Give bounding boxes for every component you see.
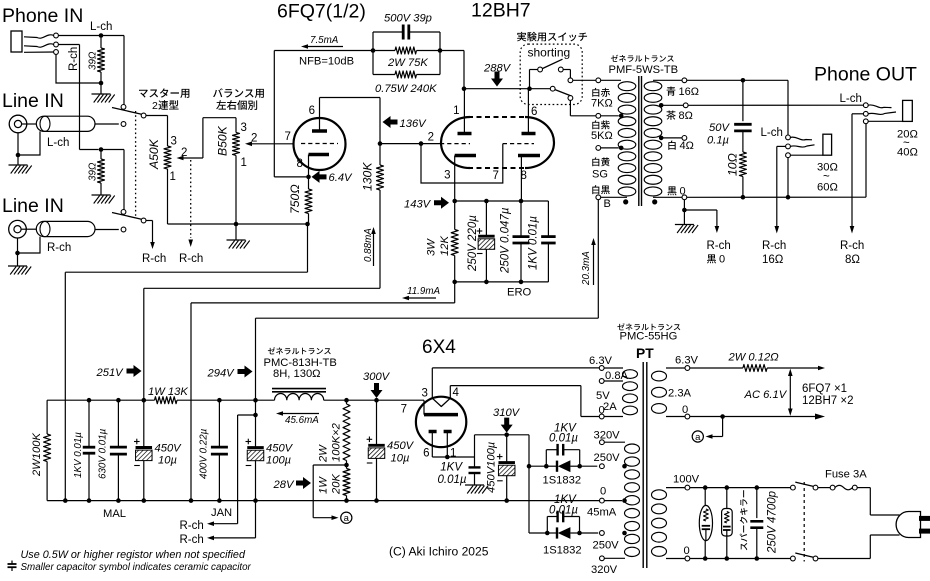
svg-text:AC 6.1V: AC 6.1V bbox=[744, 389, 788, 401]
cable L-ch bbox=[36, 116, 95, 131]
6FQ7 cathode bbox=[309, 153, 330, 157]
svg-text:300V: 300V bbox=[363, 371, 391, 383]
shorting switch upper bbox=[529, 70, 531, 89]
label master pot bbox=[139, 88, 189, 98]
wire 0 to ground and R-ch bbox=[683, 200, 685, 225]
OPT core bbox=[638, 76, 640, 206]
svg-text:2W 0.12Ω: 2W 0.12Ω bbox=[728, 352, 780, 364]
svg-text:R-ch: R-ch bbox=[142, 253, 166, 265]
svg-text:60Ω: 60Ω bbox=[817, 182, 838, 194]
cathode network bottom rail bbox=[455, 281, 549, 283]
resistor 39ohm L input bbox=[100, 38, 102, 48]
svg-text:2: 2 bbox=[428, 132, 434, 144]
choke PMC-813H-TB bbox=[272, 388, 326, 390]
svg-text:Phone IN: Phone IN bbox=[2, 5, 83, 27]
svg-text:Phone OUT: Phone OUT bbox=[814, 64, 917, 86]
jack1 sleeve contact bbox=[863, 119, 868, 124]
jack2 tip contact bbox=[786, 135, 791, 140]
svg-text:10µ: 10µ bbox=[391, 453, 410, 465]
spark killer 2 bbox=[726, 488, 728, 509]
svg-text:6: 6 bbox=[423, 448, 429, 460]
wire phone sleeve to ground bbox=[56, 54, 101, 83]
junction heater bias divider bbox=[344, 463, 349, 468]
junction NFB right bbox=[438, 48, 443, 53]
jack1 ring contact bbox=[863, 111, 868, 116]
rail 310V bbox=[475, 434, 530, 436]
selector switch L arm bbox=[112, 108, 142, 115]
label choke bbox=[268, 347, 331, 354]
svg-text:Line IN: Line IN bbox=[2, 90, 64, 112]
svg-text:0.01µ: 0.01µ bbox=[549, 505, 578, 517]
mains bottom wire bbox=[690, 558, 791, 560]
wire to ground symbol bbox=[235, 224, 237, 240]
svg-text:4Ω: 4Ω bbox=[680, 140, 694, 152]
phone-in jack ring contact bbox=[24, 44, 54, 47]
svg-text:0.8A: 0.8A bbox=[605, 370, 629, 382]
plate supply rail 288V bbox=[464, 88, 550, 90]
wire jack2 ring to R-ch 16 bbox=[777, 145, 786, 147]
diode 1S1832 upper bbox=[529, 465, 546, 467]
svg-text:3W: 3W bbox=[426, 238, 438, 256]
svg-text:16Ω: 16Ω bbox=[762, 254, 784, 266]
voltage arrow 136V bbox=[383, 116, 398, 128]
svg-text:50V: 50V bbox=[709, 122, 730, 134]
svg-text:Line IN: Line IN bbox=[2, 195, 64, 217]
jack2 ring contact bbox=[786, 144, 791, 149]
wire grid tie bbox=[380, 143, 440, 145]
svg-text:A50K: A50K bbox=[147, 138, 161, 170]
svg-text:3: 3 bbox=[422, 388, 428, 400]
arrow to R-ch preamp bbox=[152, 221, 154, 243]
svg-text:1W: 1W bbox=[318, 476, 330, 494]
junction choke out bbox=[344, 398, 349, 403]
wire 251V supply row2 bbox=[144, 287, 380, 289]
svg-text:143V: 143V bbox=[404, 199, 432, 211]
junction cathode resistor bottom bbox=[305, 222, 310, 227]
OPT primary winding bbox=[618, 82, 636, 91]
svg-text:250V 220µ: 250V 220µ bbox=[467, 215, 479, 272]
svg-text:8: 8 bbox=[521, 170, 527, 182]
junction 39ohm bottom bbox=[99, 81, 104, 86]
node a second (circled) bbox=[692, 431, 703, 442]
svg-text:450V: 450V bbox=[266, 443, 294, 455]
12BH7 plate a (pin1) bbox=[458, 132, 472, 136]
svg-text:12BH7: 12BH7 bbox=[471, 0, 531, 22]
jack1 20-40ohm body bbox=[903, 100, 913, 121]
wire NFB to cathode bbox=[273, 51, 275, 177]
wire cable L to selector bbox=[95, 123, 119, 125]
svg-text:Use 0.5W or higher registor wh: Use 0.5W or higher registor when not spe… bbox=[21, 549, 246, 561]
svg-text:1W 13K: 1W 13K bbox=[148, 386, 188, 398]
svg-text:3: 3 bbox=[241, 122, 247, 134]
svg-text:1S1832: 1S1832 bbox=[543, 475, 582, 487]
svg-text:450V100µ: 450V100µ bbox=[486, 442, 498, 493]
B+ rail top bbox=[47, 399, 154, 401]
heater return wire bbox=[690, 416, 815, 418]
voltage arrow 300V bbox=[374, 398, 379, 403]
svg-text:MAL: MAL bbox=[103, 508, 126, 520]
label R-ch (phone in) bbox=[68, 47, 80, 71]
mains switch lower bbox=[791, 556, 796, 561]
svg-text:6.4V: 6.4V bbox=[329, 172, 354, 184]
svg-text:2: 2 bbox=[152, 100, 158, 112]
wire selector R out bbox=[146, 220, 153, 222]
rca jack R bbox=[9, 220, 27, 238]
phone-in jack tip contact bbox=[24, 35, 54, 38]
svg-text:7: 7 bbox=[493, 170, 499, 182]
svg-text:7: 7 bbox=[401, 404, 407, 416]
current arrow 11.9mA bbox=[409, 297, 436, 299]
wire rca L to cable bbox=[22, 123, 37, 125]
PT 6.3V 2.3A winding bbox=[652, 371, 667, 381]
svg-text:6: 6 bbox=[309, 105, 315, 117]
svg-text:R-ch: R-ch bbox=[47, 242, 71, 254]
wire cathode to ground bus bbox=[307, 224, 309, 272]
wire cable R to selector bbox=[95, 229, 119, 231]
svg-text:6: 6 bbox=[531, 106, 537, 118]
ground rail bottom bbox=[47, 500, 599, 502]
svg-text:45.6mA: 45.6mA bbox=[285, 415, 319, 426]
svg-text:8H, 130Ω: 8H, 130Ω bbox=[273, 368, 321, 380]
svg-text:R-ch: R-ch bbox=[762, 240, 786, 252]
ground bus of input stage bbox=[168, 223, 308, 225]
ground (39ohm R) bbox=[92, 194, 111, 196]
selector switch R contacts bbox=[121, 210, 126, 215]
svg-text:6FQ7(1/2): 6FQ7(1/2) bbox=[277, 1, 366, 23]
svg-text:400V 0.22µ: 400V 0.22µ bbox=[199, 428, 210, 479]
resistor 0.75W 240K bbox=[373, 74, 395, 76]
current arrow 20.3mA bbox=[593, 245, 595, 285]
svg-text:shorting: shorting bbox=[528, 46, 571, 60]
svg-text:1: 1 bbox=[241, 157, 247, 169]
capacitor 1KV 0.01u snubber lower bbox=[546, 517, 548, 534]
label secondary taps bbox=[667, 87, 676, 96]
svg-text:R-ch: R-ch bbox=[68, 47, 80, 71]
svg-text:8: 8 bbox=[297, 158, 303, 170]
svg-text:7KΩ: 7KΩ bbox=[591, 98, 613, 110]
wire NFB bus bbox=[274, 50, 373, 52]
junction pot B bottom bbox=[234, 222, 239, 227]
wire selector L to volume pot bbox=[146, 115, 168, 117]
svg-text:100K×2: 100K×2 bbox=[331, 422, 343, 462]
svg-text:39Ω: 39Ω bbox=[88, 51, 99, 70]
svg-text:0: 0 bbox=[682, 404, 688, 416]
svg-text:SG: SG bbox=[592, 169, 608, 181]
ground (line-in L) bbox=[9, 164, 28, 166]
AC plug bbox=[869, 488, 871, 515]
wire pot A wiper to pot B top bbox=[202, 118, 204, 158]
phone-in jack sleeve contact bbox=[24, 51, 54, 53]
svg-text:20.3mA: 20.3mA bbox=[581, 251, 592, 286]
6FQ7 plate bbox=[312, 129, 327, 133]
label PT maker bbox=[617, 323, 680, 330]
svg-text:2W 75K: 2W 75K bbox=[387, 57, 428, 69]
junction node L input bbox=[99, 33, 104, 38]
6X4 heater bbox=[432, 398, 450, 406]
OPT secondary terminals bbox=[653, 79, 682, 81]
voltage arrow 6.4V at cathode bbox=[306, 175, 311, 180]
svg-text:Smaller capacitor symbol indic: Smaller capacitor symbol indicates ceram… bbox=[21, 562, 252, 573]
potentiometer B50K (balance) bbox=[233, 133, 240, 156]
wire plates joined bbox=[432, 456, 474, 458]
shorting switch lower bbox=[550, 86, 555, 91]
label primary taps bbox=[592, 88, 610, 97]
svg-text:1KV 0.01µ: 1KV 0.01µ bbox=[528, 216, 540, 270]
spark killer 1 bbox=[704, 488, 706, 506]
svg-text:PT: PT bbox=[636, 346, 654, 361]
node a (circled) bbox=[341, 512, 352, 523]
svg-text:28V: 28V bbox=[273, 479, 295, 491]
12BH7 cathode b (pin8) bbox=[518, 154, 540, 158]
tube 6X4 envelope bbox=[416, 397, 466, 447]
wire phone tip to L resistor node bbox=[58, 35, 101, 37]
wire to diodes bbox=[528, 435, 530, 533]
tube 12BH7 envelope bbox=[441, 117, 470, 168]
svg-text:39Ω: 39Ω bbox=[88, 162, 99, 181]
fuse 3A bbox=[818, 487, 830, 489]
svg-text:320V: 320V bbox=[591, 564, 618, 576]
svg-text:0: 0 bbox=[680, 186, 686, 198]
capacitor 400V 0.22u bbox=[217, 398, 222, 403]
jack1 tip contact bbox=[863, 103, 868, 108]
svg-text:6X4: 6X4 bbox=[422, 337, 456, 358]
resistor 2W100K bleeder bbox=[46, 400, 48, 434]
svg-text:2.3A: 2.3A bbox=[668, 388, 692, 400]
current arrow 7.5mA bbox=[308, 46, 343, 48]
wire to node a bbox=[722, 417, 724, 437]
wire jack1 ring to R-ch 8 bbox=[852, 113, 863, 115]
capacitor 1KV 0.01u snubber upper bbox=[545, 450, 547, 467]
svg-text:0.88mA: 0.88mA bbox=[363, 228, 374, 262]
svg-text:310V: 310V bbox=[493, 407, 521, 419]
12BH7 grid b (pin7) bbox=[503, 143, 534, 145]
secondary 0 rail bbox=[687, 196, 866, 198]
svg-text:20K: 20K bbox=[331, 474, 343, 495]
wire OPT B to 294V node bbox=[597, 200, 599, 319]
rca R ground wire bbox=[17, 238, 19, 266]
tube 6FQ7 envelope bbox=[294, 118, 346, 170]
mains top wire bbox=[690, 487, 791, 489]
rca L ground wire bbox=[17, 133, 19, 165]
svg-text:251V: 251V bbox=[96, 367, 125, 379]
R-ch B+ tap wire bbox=[253, 413, 258, 418]
svg-text:PMC-55HG: PMC-55HG bbox=[620, 331, 678, 343]
svg-text:B: B bbox=[604, 198, 611, 210]
svg-text:630V 0.01µ: 630V 0.01µ bbox=[98, 428, 109, 479]
svg-text:16Ω: 16Ω bbox=[679, 86, 699, 98]
svg-text:250V: 250V bbox=[593, 540, 620, 552]
svg-text:JAN: JAN bbox=[211, 507, 232, 519]
svg-text:250V 4700p: 250V 4700p bbox=[767, 490, 779, 554]
svg-text:(C) Aki Ichiro 2025: (C) Aki Ichiro 2025 bbox=[389, 545, 489, 559]
PT 100V winding bbox=[652, 490, 667, 500]
svg-text:0: 0 bbox=[599, 405, 605, 417]
svg-text:7: 7 bbox=[285, 131, 291, 143]
svg-text:0.01µ: 0.01µ bbox=[549, 433, 578, 445]
svg-text:L-ch: L-ch bbox=[90, 21, 112, 33]
capacitor 1KV 0.01u rect snub to ground bbox=[474, 457, 476, 467]
ground (phone-in L) bbox=[92, 93, 111, 95]
svg-text:a: a bbox=[344, 513, 350, 524]
capacitor 50V 0.1u zobel bbox=[742, 80, 744, 121]
svg-text:7.5mA: 7.5mA bbox=[310, 35, 339, 46]
svg-text:2W100K: 2W100K bbox=[31, 433, 43, 477]
svg-text:10µ: 10µ bbox=[158, 455, 177, 467]
wire R input to selector bbox=[101, 149, 124, 151]
label OPT maker bbox=[611, 55, 674, 62]
R-ch ground tap wire bbox=[255, 501, 257, 538]
6X4 plates pins 6 and 1 bbox=[429, 430, 437, 434]
current arrow 45.6mA bbox=[283, 413, 319, 415]
svg-text:294V: 294V bbox=[207, 368, 236, 380]
svg-text:5KΩ: 5KΩ bbox=[591, 130, 613, 142]
selector switch L contacts bbox=[121, 105, 126, 110]
pot A wiper arrow bbox=[184, 157, 203, 159]
resistor 750ohm cathode bbox=[308, 177, 310, 189]
svg-text:L-ch: L-ch bbox=[47, 137, 69, 149]
label balance pot bbox=[213, 88, 264, 98]
svg-text:1S1832: 1S1832 bbox=[543, 545, 582, 557]
svg-text:450V: 450V bbox=[387, 440, 415, 452]
svg-text:12K: 12K bbox=[439, 236, 451, 256]
capacitor 450V 10u electrolytic bbox=[142, 398, 147, 403]
svg-text:100µ: 100µ bbox=[266, 455, 291, 467]
heater supply wire bbox=[690, 367, 743, 369]
svg-text:B50K: B50K bbox=[216, 125, 230, 156]
svg-text:R-ch: R-ch bbox=[180, 520, 204, 532]
svg-text:250V 0.047µ: 250V 0.047µ bbox=[500, 207, 512, 274]
svg-text:3: 3 bbox=[171, 136, 177, 148]
12BH7 cathode a (pin3) bbox=[455, 154, 476, 158]
svg-text:1: 1 bbox=[170, 171, 176, 183]
resistor 2W 100Kx2 bbox=[346, 400, 348, 404]
PT core bbox=[642, 362, 644, 568]
wire to ground L bbox=[100, 83, 102, 94]
svg-text:1: 1 bbox=[450, 448, 456, 460]
wire divider tap to node a bbox=[313, 464, 346, 466]
cable R-ch bbox=[36, 221, 95, 236]
OPT primary terminals bbox=[601, 79, 621, 81]
resistor 130K plate load bbox=[378, 141, 383, 146]
wire cathode network to ground line bbox=[454, 282, 456, 303]
capacitor 1KV 0.01u (ERO) bbox=[547, 201, 549, 237]
svg-text:8Ω: 8Ω bbox=[679, 110, 693, 122]
svg-text:0.75W 240K: 0.75W 240K bbox=[375, 83, 437, 95]
svg-text:1KV: 1KV bbox=[440, 462, 463, 474]
svg-text:136V: 136V bbox=[400, 118, 428, 130]
svg-text:2A: 2A bbox=[603, 401, 617, 413]
wire phone ring to R channel bbox=[58, 44, 79, 46]
rca jack L bbox=[9, 115, 27, 133]
resistor 10ohm zobel bbox=[739, 152, 746, 177]
gang dashed link pot A to R-ch bbox=[190, 160, 192, 238]
svg-text:8Ω: 8Ω bbox=[845, 254, 860, 266]
svg-text:11.9mA: 11.9mA bbox=[407, 286, 441, 297]
svg-text:3: 3 bbox=[444, 170, 450, 182]
junction 39ohm R top bbox=[99, 147, 104, 152]
phone-in jack plug body bbox=[11, 31, 22, 52]
svg-text:6FQ7 ×1: 6FQ7 ×1 bbox=[802, 383, 847, 395]
arrow gang to R-ch pot bbox=[188, 240, 193, 248]
svg-text:L-ch: L-ch bbox=[761, 127, 783, 139]
svg-text:NFB=10dB: NFB=10dB bbox=[299, 56, 354, 68]
resistor 3W 12K bbox=[454, 201, 456, 230]
label experimental switch bbox=[517, 32, 587, 42]
jack2 30-60ohm body bbox=[823, 134, 832, 155]
svg-text:320V: 320V bbox=[594, 430, 621, 442]
gang dashed link selector bbox=[135, 111, 137, 218]
experimental switch dashed box bbox=[520, 44, 582, 104]
resistor 1W 20K bbox=[346, 465, 348, 469]
svg-text:6.3V: 6.3V bbox=[589, 355, 613, 367]
ground (OPT secondary) bbox=[675, 224, 694, 226]
PT 6.3V 0.8A and 5V 2A winding bbox=[623, 370, 638, 379]
wire 16ohm to jack2 bbox=[687, 79, 788, 81]
ground (rectifier) bbox=[465, 484, 484, 486]
6FQ7 grid bbox=[301, 143, 338, 145]
svg-text:100V: 100V bbox=[673, 474, 700, 486]
svg-text:500V 39p: 500V 39p bbox=[384, 13, 432, 25]
svg-text:6.3V: 6.3V bbox=[675, 355, 699, 367]
ground (pots) bbox=[227, 239, 246, 241]
svg-text:130K: 130K bbox=[361, 162, 375, 191]
svg-text:R-ch: R-ch bbox=[180, 534, 204, 546]
cathode rail 143V bbox=[455, 200, 549, 202]
svg-text:40Ω: 40Ω bbox=[897, 147, 918, 159]
svg-text:450V: 450V bbox=[155, 443, 183, 455]
svg-text:Fuse 3A: Fuse 3A bbox=[825, 469, 867, 481]
svg-text:R-ch: R-ch bbox=[707, 240, 731, 252]
ground bus row1 bbox=[65, 271, 307, 273]
svg-text:1: 1 bbox=[453, 105, 459, 117]
12BH7 grid a (pin2) bbox=[440, 143, 470, 145]
capacitor 1KV 0.01u psu bbox=[87, 398, 92, 403]
wire 6FQ7 plate to 12BH7 grid node bbox=[320, 97, 381, 99]
wire heater pin3 to PT 6.3V bbox=[431, 368, 433, 398]
svg-text:10Ω: 10Ω bbox=[726, 153, 740, 176]
wire 8ohm to jack1 bbox=[688, 104, 863, 106]
svg-text:R-ch: R-ch bbox=[179, 253, 203, 265]
wire switch to OPT 7K tap bbox=[573, 79, 596, 81]
capacitor 250V 220u electrolytic bbox=[485, 201, 487, 236]
mini cap symbol bbox=[11, 561, 13, 565]
mains switch upper bbox=[791, 485, 796, 490]
resistor 1W 13K bbox=[155, 397, 178, 404]
capacitor 250V 4700p bbox=[756, 488, 758, 518]
svg-text:0: 0 bbox=[684, 545, 690, 557]
svg-text:PMF-5WS-TB: PMF-5WS-TB bbox=[609, 64, 679, 76]
svg-text:a: a bbox=[695, 432, 701, 443]
capacitor 630V 0.01u bbox=[116, 398, 121, 403]
resistor 2W 75K bbox=[373, 50, 395, 52]
svg-text:1KV 0.01µ: 1KV 0.01µ bbox=[73, 432, 84, 478]
capacitor 450V 10u second bbox=[376, 400, 378, 445]
6X4 cathode bar pin7 bbox=[423, 400, 425, 414]
svg-text:L-ch: L-ch bbox=[840, 93, 862, 105]
label spark killer bbox=[740, 490, 748, 550]
svg-text:0: 0 bbox=[719, 254, 725, 266]
selector switch R arm bbox=[112, 213, 142, 220]
wire rca R to cable bbox=[21, 228, 36, 230]
svg-text:0.1µ: 0.1µ bbox=[707, 135, 729, 147]
svg-text:R-ch: R-ch bbox=[840, 240, 864, 252]
resistor 39ohm R input bbox=[100, 150, 102, 160]
OPT polarity dots bbox=[623, 199, 628, 204]
svg-text:4: 4 bbox=[453, 387, 460, 399]
capacitor 250V 0.047u bbox=[520, 201, 522, 237]
ground (line-in R) bbox=[8, 265, 27, 267]
svg-text:12BH7 ×2: 12BH7 ×2 bbox=[802, 395, 853, 407]
